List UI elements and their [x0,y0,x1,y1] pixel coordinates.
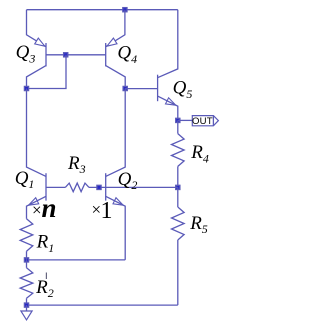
wire Q1 base / R3 lead [46,186,65,188]
wire R3 to Q2 base [89,186,106,188]
wire Q2 base to divider [106,186,178,188]
node R1/R2 junction [24,258,28,262]
svg-text:Q4: Q4 [117,43,137,66]
svg-text:OUT: OUT [192,116,213,127]
node R3 / Q2 base junction [97,185,101,189]
node Q3 base junction [64,53,68,57]
wire OUT stub [178,119,193,121]
wire bottom rail [27,304,178,306]
transistor Q2 (NPN) [106,173,124,205]
svg-text:1: 1 [101,198,113,224]
resistor R2 [26,260,28,268]
transistor Q4 (PNP) [106,38,117,66]
svg-text:R1: R1 [36,232,55,255]
wire Q3 emitter leg [27,10,46,47]
svg-text:R4: R4 [190,142,209,165]
wire top supply rail [27,9,178,11]
node ground junction [24,303,28,307]
resistor R5 [177,187,179,207]
node Q4 collector / Q5 base junction [123,86,127,90]
resistor R1 [20,219,33,252]
ground [21,305,32,320]
svg-text:Q2: Q2 [118,169,138,192]
stray tick above R2 [45,273,47,280]
wire Q4 emitter leg [106,10,125,47]
svg-text:×: × [32,201,42,220]
wire Q5 emitter [158,96,178,120]
svg-text:R5: R5 [189,213,208,236]
node Q3 collector junction [24,86,28,90]
svg-text:Q1: Q1 [15,168,35,191]
transistor Q3 (PNP) [35,38,46,66]
wire emitter mid rail [27,259,126,261]
wire Q2 emitter [106,196,126,260]
svg-text:R3: R3 [67,153,86,176]
pin OUT flag [192,116,218,127]
wire Q1 collector leg [27,89,47,177]
wire Q4 collector [106,66,126,89]
node R4/R5 junction [176,185,180,189]
node Q5 emitter / OUT junction [176,118,180,122]
wire Q3 diode connection [27,55,67,89]
resistor R4 [177,120,179,133]
resistor R3 [65,183,89,192]
node top rail junction [123,8,127,12]
wire Q2 collector leg [106,89,126,177]
wire Q1 emitter [27,196,47,218]
wire Q5 collector [158,10,178,78]
svg-text:Q5: Q5 [173,78,193,101]
wire Q3 collector [27,66,47,89]
transistor Q1 (NPN) [29,173,47,205]
svg-text:n: n [42,193,57,223]
svg-text:R2: R2 [35,277,54,300]
wire Q5 base [125,88,157,90]
transistor Q5 (NPN) [158,75,176,106]
svg-text:Q3: Q3 [16,42,36,65]
wire Q3-Q4 base link [46,54,106,56]
